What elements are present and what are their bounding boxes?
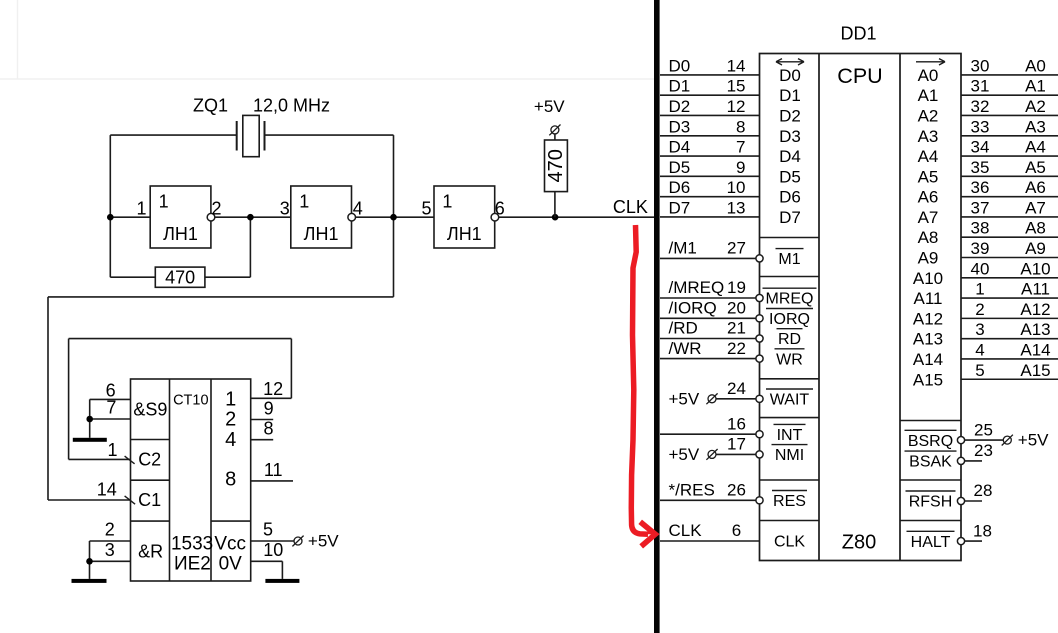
- svg-text:8: 8: [263, 419, 273, 439]
- svg-text:D7: D7: [779, 208, 801, 227]
- svg-text:1: 1: [159, 192, 169, 212]
- svg-text:D3: D3: [779, 127, 801, 146]
- svg-text:A10: A10: [913, 269, 943, 288]
- svg-text:A15: A15: [913, 370, 943, 389]
- svg-text:/RD: /RD: [669, 319, 698, 338]
- svg-text:12: 12: [727, 97, 746, 116]
- svg-text:D7: D7: [669, 198, 691, 217]
- svg-text:ЛН1: ЛН1: [447, 224, 482, 244]
- svg-text:A1: A1: [1025, 77, 1046, 96]
- svg-text:36: 36: [971, 178, 990, 197]
- svg-text:5: 5: [421, 199, 431, 219]
- svg-text:ИЕ2: ИЕ2: [174, 553, 211, 574]
- svg-text:C2: C2: [138, 449, 161, 469]
- svg-text:A13: A13: [913, 330, 943, 349]
- svg-text:D3: D3: [669, 117, 691, 136]
- svg-text:1533: 1533: [171, 534, 213, 555]
- svg-text:+5V: +5V: [669, 389, 700, 408]
- svg-text:7: 7: [736, 138, 745, 157]
- svg-text:2: 2: [105, 520, 115, 540]
- svg-text:+5V: +5V: [534, 97, 565, 116]
- svg-text:31: 31: [971, 77, 990, 96]
- svg-text:10: 10: [263, 540, 283, 560]
- svg-text:6: 6: [495, 199, 505, 219]
- svg-text:21: 21: [727, 319, 746, 338]
- svg-text:RES: RES: [773, 493, 806, 510]
- svg-text:A11: A11: [914, 289, 943, 308]
- svg-text:33: 33: [971, 117, 990, 136]
- svg-text:8: 8: [225, 469, 236, 491]
- svg-text:38: 38: [971, 219, 990, 238]
- svg-text:1: 1: [136, 199, 146, 219]
- svg-text:2: 2: [975, 300, 984, 319]
- svg-text:A6: A6: [918, 188, 939, 207]
- svg-text:9: 9: [264, 399, 274, 419]
- svg-text:11: 11: [264, 460, 283, 480]
- svg-text:&S9: &S9: [133, 399, 167, 419]
- svg-text:A2: A2: [1025, 97, 1046, 116]
- svg-text:RD: RD: [778, 331, 801, 348]
- svg-text:28: 28: [974, 481, 993, 500]
- svg-text:8: 8: [736, 117, 745, 136]
- svg-text:25: 25: [974, 420, 993, 439]
- svg-text:WR: WR: [776, 351, 803, 368]
- svg-text:WAIT: WAIT: [770, 392, 810, 409]
- svg-text:7: 7: [106, 398, 116, 418]
- svg-text:A9: A9: [918, 249, 939, 268]
- svg-text:1: 1: [299, 192, 309, 212]
- svg-text:10: 10: [727, 178, 746, 197]
- svg-text:ЛН1: ЛН1: [304, 224, 339, 244]
- svg-text:6: 6: [732, 521, 741, 540]
- svg-text:M1: M1: [778, 251, 800, 268]
- svg-text:A8: A8: [918, 228, 939, 247]
- svg-text:BSRQ: BSRQ: [908, 433, 953, 450]
- svg-text:4: 4: [225, 429, 236, 451]
- svg-text:D2: D2: [669, 97, 691, 116]
- svg-text:A14: A14: [1020, 340, 1050, 359]
- svg-text:13: 13: [727, 198, 746, 217]
- svg-text:27: 27: [727, 239, 746, 258]
- svg-text:12: 12: [263, 379, 283, 399]
- svg-text:A5: A5: [1025, 158, 1046, 177]
- svg-text:20: 20: [727, 299, 746, 318]
- svg-text:22: 22: [727, 339, 746, 358]
- svg-text:ZQ1: ZQ1: [193, 96, 228, 116]
- svg-text:A3: A3: [1025, 117, 1046, 136]
- svg-text:18: 18: [973, 521, 992, 540]
- svg-text:CLK: CLK: [613, 197, 648, 217]
- svg-text:A5: A5: [918, 167, 939, 186]
- svg-text:1: 1: [225, 389, 236, 411]
- svg-text:1: 1: [975, 280, 984, 299]
- svg-text:&R: &R: [138, 542, 163, 562]
- svg-text:D0: D0: [779, 66, 801, 85]
- svg-text:D2: D2: [779, 106, 801, 125]
- svg-text:MREQ: MREQ: [766, 291, 814, 308]
- svg-text:ЛН1: ЛН1: [163, 224, 198, 244]
- svg-text:3: 3: [975, 320, 984, 339]
- svg-text:CLK: CLK: [774, 534, 805, 551]
- svg-text:3: 3: [105, 540, 115, 560]
- svg-text:4: 4: [975, 340, 984, 359]
- svg-text:12,0 MHz: 12,0 MHz: [253, 96, 330, 116]
- svg-text:D1: D1: [669, 77, 691, 96]
- svg-text:A15: A15: [1020, 361, 1050, 380]
- svg-text:17: 17: [727, 435, 746, 454]
- svg-text:A4: A4: [1025, 138, 1046, 157]
- svg-text:/M1: /M1: [669, 239, 697, 258]
- svg-text:A12: A12: [1020, 300, 1050, 319]
- svg-text:+5V: +5V: [1018, 430, 1049, 449]
- svg-text:HALT: HALT: [911, 534, 951, 551]
- svg-text:/IORQ: /IORQ: [669, 299, 717, 318]
- svg-text:+5V: +5V: [308, 531, 339, 550]
- svg-text:40: 40: [971, 259, 990, 278]
- svg-text:1: 1: [107, 440, 117, 460]
- svg-text:*/RES: */RES: [669, 481, 715, 500]
- svg-text:A8: A8: [1025, 219, 1046, 238]
- svg-text:19: 19: [727, 278, 746, 297]
- svg-text:A7: A7: [918, 208, 939, 227]
- svg-text:9: 9: [736, 158, 745, 177]
- svg-text:+5V: +5V: [669, 445, 700, 464]
- svg-text:NMI: NMI: [775, 447, 804, 464]
- svg-text:32: 32: [971, 97, 990, 116]
- svg-text:A9: A9: [1025, 239, 1046, 258]
- svg-text:2: 2: [225, 409, 236, 431]
- svg-text:A12: A12: [913, 309, 943, 328]
- svg-text:470: 470: [165, 268, 195, 288]
- svg-text:D6: D6: [669, 178, 691, 197]
- svg-text:C1: C1: [138, 490, 161, 510]
- svg-text:D1: D1: [779, 86, 801, 105]
- svg-text:INT: INT: [777, 427, 803, 444]
- svg-text:Z80: Z80: [842, 532, 876, 554]
- svg-text:A11: A11: [1021, 280, 1050, 299]
- svg-text:D5: D5: [669, 158, 691, 177]
- svg-text:D0: D0: [669, 56, 691, 75]
- svg-text:CT10: CT10: [173, 392, 208, 408]
- svg-text:14: 14: [727, 56, 746, 75]
- svg-text:39: 39: [971, 239, 990, 258]
- svg-text:IORQ: IORQ: [769, 311, 810, 328]
- svg-text:A14: A14: [913, 350, 943, 369]
- svg-text:5: 5: [975, 361, 984, 380]
- svg-text:A2: A2: [918, 106, 939, 125]
- svg-text:2: 2: [211, 199, 221, 219]
- svg-text:A1: A1: [918, 86, 939, 105]
- svg-text:A4: A4: [918, 147, 939, 166]
- svg-text:DD1: DD1: [840, 24, 876, 44]
- svg-text:3: 3: [280, 199, 290, 219]
- svg-text:A13: A13: [1020, 320, 1050, 339]
- svg-text:15: 15: [727, 77, 746, 96]
- svg-text:A3: A3: [918, 127, 939, 146]
- svg-text:16: 16: [727, 414, 746, 433]
- svg-text:/MREQ: /MREQ: [669, 278, 725, 297]
- svg-text:30: 30: [971, 56, 990, 75]
- svg-text:CPU: CPU: [837, 64, 882, 88]
- svg-text:0V: 0V: [219, 553, 243, 574]
- svg-text:23: 23: [974, 441, 993, 460]
- svg-text:26: 26: [727, 481, 746, 500]
- svg-text:A6: A6: [1025, 178, 1046, 197]
- svg-text:34: 34: [971, 138, 990, 157]
- svg-text:Vcc: Vcc: [214, 534, 246, 555]
- svg-text:D5: D5: [779, 167, 801, 186]
- svg-text:D4: D4: [669, 138, 691, 157]
- svg-text:35: 35: [971, 158, 990, 177]
- svg-text:4: 4: [353, 199, 363, 219]
- svg-text:470: 470: [545, 149, 567, 182]
- svg-text:24: 24: [727, 379, 746, 398]
- svg-text:A0: A0: [918, 66, 939, 85]
- svg-text:A0: A0: [1025, 56, 1046, 75]
- svg-text:CLK: CLK: [669, 521, 703, 540]
- svg-text:D4: D4: [779, 147, 801, 166]
- svg-text:D6: D6: [779, 188, 801, 207]
- svg-text:A7: A7: [1025, 198, 1046, 217]
- svg-text:A10: A10: [1020, 259, 1050, 278]
- svg-text:/WR: /WR: [669, 339, 702, 358]
- svg-text:1: 1: [442, 192, 452, 212]
- svg-text:BSAK: BSAK: [909, 454, 952, 471]
- svg-text:5: 5: [263, 519, 273, 539]
- svg-text:14: 14: [97, 479, 117, 499]
- svg-text:37: 37: [971, 198, 990, 217]
- svg-text:RFSH: RFSH: [909, 494, 953, 511]
